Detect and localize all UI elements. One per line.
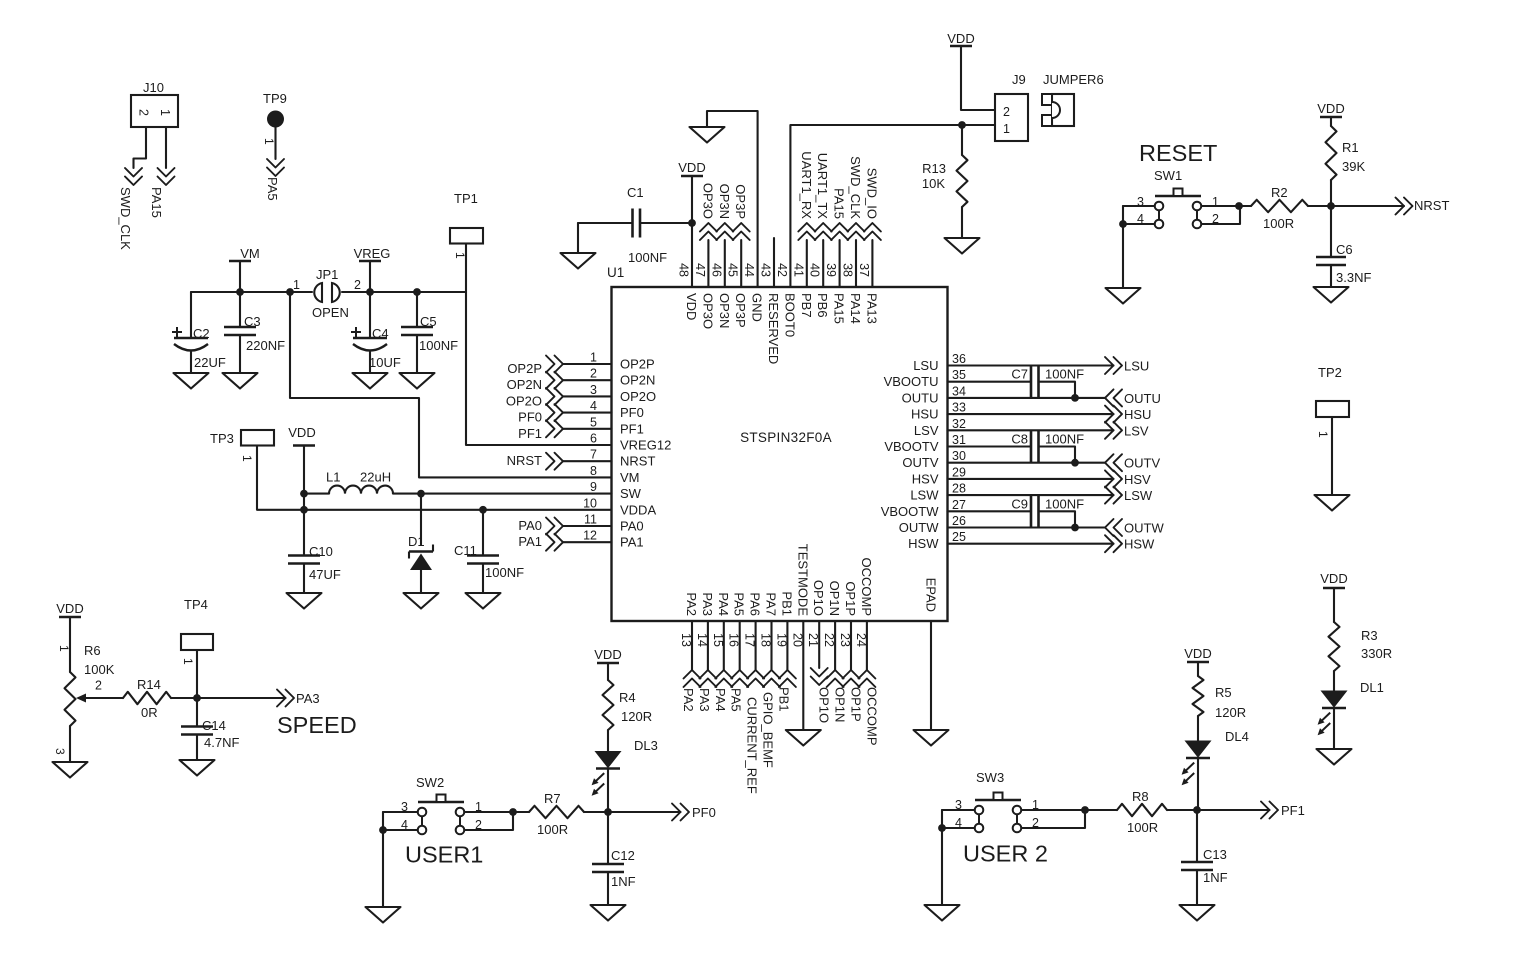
svg-text:PA0: PA0	[518, 518, 542, 533]
svg-text:1: 1	[158, 109, 172, 116]
svg-text:PF1: PF1	[1281, 803, 1305, 818]
svg-text:TP1: TP1	[454, 191, 478, 206]
svg-text:OP3N: OP3N	[717, 293, 732, 328]
svg-text:2: 2	[95, 679, 102, 693]
svg-text:SWD_IO: SWD_IO	[864, 168, 879, 219]
svg-text:100NF: 100NF	[1045, 496, 1084, 511]
svg-text:PA7: PA7	[764, 592, 779, 616]
svg-text:2: 2	[1003, 105, 1010, 119]
svg-text:10: 10	[583, 496, 597, 510]
svg-text:7: 7	[590, 448, 597, 462]
svg-text:C12: C12	[611, 848, 635, 863]
svg-text:PA5: PA5	[265, 177, 280, 201]
svg-text:STSPIN32F0A: STSPIN32F0A	[740, 430, 832, 445]
svg-text:OCCOMP: OCCOMP	[864, 687, 879, 746]
svg-text:OUTW: OUTW	[1124, 521, 1164, 536]
svg-text:1: 1	[1316, 431, 1330, 438]
svg-text:CURRENT_REF: CURRENT_REF	[745, 697, 760, 794]
svg-text:18: 18	[759, 633, 773, 647]
svg-text:TESTMODE: TESTMODE	[795, 544, 810, 617]
svg-text:10K: 10K	[922, 176, 945, 191]
svg-text:2: 2	[354, 278, 361, 292]
svg-text:OP2O: OP2O	[620, 389, 656, 404]
svg-text:C8: C8	[1011, 432, 1028, 447]
svg-text:100R: 100R	[1263, 216, 1294, 231]
svg-text:EPAD: EPAD	[924, 578, 939, 612]
svg-text:C9: C9	[1011, 496, 1028, 511]
svg-text:3: 3	[401, 800, 408, 814]
svg-text:JUMPER6: JUMPER6	[1043, 72, 1104, 87]
svg-text:SWD_CLK: SWD_CLK	[118, 187, 133, 250]
svg-text:VBOOTU: VBOOTU	[884, 374, 939, 389]
svg-text:HSV: HSV	[1124, 472, 1151, 487]
svg-text:100NF: 100NF	[1045, 432, 1084, 447]
svg-text:OUTV: OUTV	[1124, 456, 1160, 471]
svg-text:3: 3	[1137, 195, 1144, 209]
svg-text:VDD: VDD	[56, 601, 83, 616]
svg-text:GND: GND	[750, 293, 765, 322]
svg-text:1: 1	[590, 351, 597, 365]
svg-text:VBOOTV: VBOOTV	[884, 439, 939, 454]
svg-text:OP2P: OP2P	[507, 361, 542, 376]
svg-text:1: 1	[262, 138, 276, 145]
svg-text:37: 37	[857, 263, 871, 277]
svg-text:OUTU: OUTU	[902, 390, 939, 405]
svg-text:3: 3	[53, 748, 67, 755]
svg-text:J9: J9	[1012, 72, 1026, 87]
svg-text:3.3NF: 3.3NF	[1336, 270, 1371, 285]
svg-text:DL4: DL4	[1225, 729, 1249, 744]
svg-text:R7: R7	[544, 791, 561, 806]
svg-text:HSU: HSU	[911, 407, 938, 422]
svg-text:34: 34	[952, 384, 966, 398]
svg-text:39: 39	[824, 263, 838, 277]
svg-text:VDD: VDD	[594, 647, 621, 662]
svg-text:1: 1	[293, 278, 300, 292]
svg-text:VDD: VDD	[1317, 101, 1344, 116]
svg-text:NRST: NRST	[620, 454, 655, 469]
svg-text:OP2O: OP2O	[506, 393, 542, 408]
svg-text:20: 20	[790, 633, 804, 647]
svg-text:100R: 100R	[1127, 820, 1158, 835]
svg-text:LSW: LSW	[1124, 488, 1153, 503]
svg-text:PA1: PA1	[518, 534, 542, 549]
svg-text:38: 38	[841, 263, 855, 277]
svg-text:PA15: PA15	[149, 187, 164, 218]
svg-text:24: 24	[854, 633, 868, 647]
svg-text:PF1: PF1	[620, 421, 644, 436]
svg-text:C11: C11	[454, 543, 477, 558]
svg-text:LSU: LSU	[913, 358, 938, 373]
svg-text:27: 27	[952, 498, 966, 512]
svg-text:LSV: LSV	[1124, 423, 1149, 438]
svg-text:16: 16	[727, 633, 741, 647]
svg-text:1NF: 1NF	[611, 874, 636, 889]
svg-text:25: 25	[952, 530, 966, 544]
svg-text:OP2P: OP2P	[620, 357, 655, 372]
svg-text:R1: R1	[1342, 140, 1359, 155]
svg-text:RESERVED: RESERVED	[766, 293, 781, 364]
svg-text:100NF: 100NF	[1045, 367, 1084, 382]
svg-text:C7: C7	[1011, 367, 1028, 382]
svg-text:VREG12: VREG12	[620, 438, 671, 453]
svg-text:48: 48	[677, 263, 691, 277]
svg-text:46: 46	[709, 263, 723, 277]
svg-text:2: 2	[137, 109, 151, 116]
svg-text:PA1: PA1	[620, 535, 644, 550]
svg-text:PA3: PA3	[700, 592, 715, 616]
svg-text:PA3: PA3	[697, 688, 712, 712]
svg-text:SPEED: SPEED	[277, 712, 357, 738]
svg-text:OP1O: OP1O	[811, 580, 826, 616]
svg-text:220NF: 220NF	[246, 338, 285, 353]
svg-text:SW3: SW3	[976, 770, 1004, 785]
svg-text:4.7NF: 4.7NF	[204, 735, 239, 750]
svg-text:C3: C3	[244, 314, 261, 329]
svg-text:VDD: VDD	[288, 425, 315, 440]
svg-text:OP3N: OP3N	[717, 184, 732, 219]
svg-text:42: 42	[775, 263, 789, 277]
svg-text:32: 32	[952, 417, 966, 431]
svg-text:C14: C14	[202, 718, 226, 733]
svg-text:21: 21	[806, 633, 820, 647]
svg-text:DL3: DL3	[634, 738, 658, 753]
svg-text:PA4: PA4	[713, 688, 728, 712]
svg-text:C2: C2	[193, 326, 210, 341]
svg-text:PA2: PA2	[684, 592, 699, 616]
svg-text:GPIO_BEMF: GPIO_BEMF	[761, 692, 776, 768]
svg-text:1: 1	[1003, 122, 1010, 136]
svg-text:PA5: PA5	[732, 592, 747, 616]
svg-text:100K: 100K	[84, 662, 115, 677]
svg-text:39K: 39K	[1342, 159, 1365, 174]
svg-text:HSW: HSW	[1124, 537, 1155, 552]
svg-text:28: 28	[952, 482, 966, 496]
svg-text:USER 2: USER 2	[963, 841, 1048, 867]
svg-text:22: 22	[822, 633, 836, 647]
svg-text:R2: R2	[1271, 185, 1288, 200]
svg-text:SW1: SW1	[1154, 168, 1182, 183]
svg-text:100NF: 100NF	[419, 338, 458, 353]
svg-text:2: 2	[590, 367, 597, 381]
svg-text:DL1: DL1	[1360, 680, 1384, 695]
svg-text:LSV: LSV	[914, 423, 939, 438]
svg-text:44: 44	[742, 263, 756, 277]
svg-text:17: 17	[743, 633, 757, 647]
svg-text:OP2N: OP2N	[507, 377, 542, 392]
svg-text:41: 41	[791, 263, 805, 277]
svg-text:PB7: PB7	[799, 293, 814, 318]
svg-text:C6: C6	[1336, 242, 1353, 257]
svg-text:PA0: PA0	[620, 519, 644, 534]
svg-text:13: 13	[679, 633, 693, 647]
svg-text:OP3P: OP3P	[733, 293, 748, 328]
svg-text:OP1P: OP1P	[849, 687, 864, 722]
svg-text:9: 9	[590, 480, 597, 494]
svg-text:C10: C10	[309, 544, 333, 559]
svg-text:J10: J10	[143, 80, 164, 95]
svg-text:15: 15	[711, 633, 725, 647]
svg-text:VM: VM	[620, 470, 640, 485]
svg-text:29: 29	[952, 465, 966, 479]
svg-text:OCCOMP: OCCOMP	[859, 558, 874, 617]
svg-text:OP1O: OP1O	[817, 687, 832, 723]
svg-text:PA3: PA3	[296, 691, 320, 706]
svg-text:PB1: PB1	[779, 591, 794, 616]
svg-text:PF0: PF0	[518, 410, 542, 425]
svg-text:12: 12	[583, 529, 597, 543]
svg-text:33: 33	[952, 401, 966, 415]
svg-text:VREG: VREG	[354, 246, 391, 261]
svg-text:47UF: 47UF	[309, 567, 341, 582]
svg-text:1: 1	[181, 658, 195, 665]
svg-text:R13: R13	[922, 161, 946, 176]
svg-text:OP1N: OP1N	[833, 687, 848, 722]
svg-text:C5: C5	[420, 314, 437, 329]
svg-text:4: 4	[955, 816, 962, 830]
svg-text:30: 30	[952, 449, 966, 463]
svg-text:OUTU: OUTU	[1124, 391, 1161, 406]
svg-text:10UF: 10UF	[369, 355, 401, 370]
svg-text:C1: C1	[627, 185, 644, 200]
svg-text:45: 45	[726, 263, 740, 277]
svg-text:PB6: PB6	[815, 293, 830, 318]
svg-text:LSW: LSW	[910, 488, 939, 503]
svg-text:HSW: HSW	[908, 536, 939, 551]
svg-text:R14: R14	[137, 677, 161, 692]
svg-text:26: 26	[952, 514, 966, 528]
svg-text:HSV: HSV	[912, 471, 939, 486]
svg-text:C13: C13	[1203, 847, 1227, 862]
svg-text:1NF: 1NF	[1203, 870, 1228, 885]
svg-text:330R: 330R	[1361, 646, 1392, 661]
svg-text:40: 40	[808, 263, 822, 277]
svg-text:HSU: HSU	[1124, 407, 1151, 422]
svg-text:L1: L1	[326, 470, 340, 485]
svg-text:SW: SW	[620, 486, 642, 501]
svg-text:PA2: PA2	[681, 688, 696, 712]
svg-text:R4: R4	[619, 690, 636, 705]
svg-text:NRST: NRST	[507, 453, 542, 468]
svg-text:43: 43	[759, 263, 773, 277]
svg-text:USER1: USER1	[405, 842, 483, 868]
svg-text:PB1: PB1	[776, 687, 791, 712]
svg-text:120R: 120R	[621, 709, 652, 724]
svg-text:5: 5	[590, 415, 597, 429]
svg-text:14: 14	[695, 633, 709, 647]
svg-text:OP3O: OP3O	[700, 183, 715, 219]
svg-text:OPEN: OPEN	[312, 305, 349, 320]
svg-text:VDD: VDD	[947, 31, 974, 46]
svg-text:VM: VM	[240, 246, 260, 261]
svg-text:1: 1	[240, 455, 254, 462]
svg-text:8: 8	[590, 464, 597, 478]
svg-text:TP3: TP3	[210, 431, 234, 446]
svg-text:PF0: PF0	[692, 805, 716, 820]
svg-text:UART1_RX: UART1_RX	[799, 151, 814, 219]
svg-text:1: 1	[453, 252, 467, 259]
svg-text:OP2N: OP2N	[620, 373, 655, 388]
svg-text:VDDA: VDDA	[620, 502, 656, 517]
svg-text:22uH: 22uH	[360, 470, 391, 485]
svg-text:11: 11	[584, 513, 597, 527]
svg-text:1: 1	[57, 645, 71, 652]
svg-text:VDD: VDD	[684, 293, 699, 320]
svg-text:4: 4	[590, 399, 597, 413]
svg-text:PF1: PF1	[518, 426, 542, 441]
svg-text:SWD_CLK: SWD_CLK	[848, 156, 863, 219]
svg-text:OUTW: OUTW	[899, 520, 939, 535]
svg-text:C4: C4	[372, 326, 389, 341]
svg-text:PA15: PA15	[832, 188, 847, 219]
svg-text:35: 35	[952, 368, 966, 382]
svg-text:47: 47	[693, 263, 707, 277]
svg-text:PA14: PA14	[848, 293, 863, 324]
svg-text:3: 3	[955, 798, 962, 812]
svg-text:OUTV: OUTV	[902, 455, 938, 470]
svg-text:PA5: PA5	[729, 688, 744, 712]
svg-text:R5: R5	[1215, 685, 1232, 700]
svg-text:36: 36	[952, 352, 966, 366]
svg-text:22UF: 22UF	[194, 355, 226, 370]
svg-text:BOOT0: BOOT0	[782, 293, 797, 337]
svg-text:VDD: VDD	[678, 160, 705, 175]
svg-text:31: 31	[952, 433, 966, 447]
svg-text:0R: 0R	[141, 705, 158, 720]
svg-text:TP9: TP9	[263, 91, 287, 106]
svg-text:3: 3	[590, 383, 597, 397]
svg-text:100NF: 100NF	[485, 565, 524, 580]
svg-text:19: 19	[774, 633, 788, 647]
svg-text:120R: 120R	[1215, 705, 1246, 720]
svg-text:TP4: TP4	[184, 597, 208, 612]
svg-text:R3: R3	[1361, 628, 1378, 643]
svg-text:UART1_TX: UART1_TX	[815, 153, 830, 220]
svg-text:100NF: 100NF	[628, 250, 667, 265]
svg-text:PA13: PA13	[864, 293, 879, 324]
svg-text:JP1: JP1	[316, 267, 338, 282]
svg-text:23: 23	[838, 633, 852, 647]
svg-text:OP3P: OP3P	[733, 184, 748, 219]
svg-text:D1: D1	[408, 534, 425, 549]
svg-text:4: 4	[401, 818, 408, 832]
svg-text:RESET: RESET	[1139, 140, 1217, 166]
svg-text:6: 6	[590, 432, 597, 446]
svg-text:PF0: PF0	[620, 405, 644, 420]
svg-text:PA15: PA15	[832, 293, 847, 324]
svg-text:PA6: PA6	[748, 592, 763, 616]
svg-text:VBOOTW: VBOOTW	[881, 504, 940, 519]
svg-text:OP3O: OP3O	[700, 293, 715, 329]
svg-text:R6: R6	[84, 643, 101, 658]
svg-text:100R: 100R	[537, 822, 568, 837]
svg-text:VDD: VDD	[1184, 646, 1211, 661]
svg-text:R8: R8	[1132, 789, 1149, 804]
svg-text:VDD: VDD	[1320, 571, 1347, 586]
svg-text:PA4: PA4	[716, 592, 731, 616]
svg-text:SW2: SW2	[416, 775, 444, 790]
svg-text:TP2: TP2	[1318, 365, 1342, 380]
svg-text:4: 4	[1137, 212, 1144, 226]
svg-text:LSU: LSU	[1124, 359, 1149, 374]
svg-text:NRST: NRST	[1414, 198, 1449, 213]
svg-text:U1: U1	[607, 265, 624, 280]
svg-text:OP1N: OP1N	[827, 581, 842, 616]
svg-text:OP1P: OP1P	[843, 581, 858, 616]
